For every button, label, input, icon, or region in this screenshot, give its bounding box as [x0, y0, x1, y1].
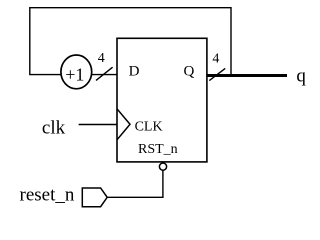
svg-text:CLK: CLK: [135, 119, 163, 134]
bus-width slash on D wire: [96, 67, 113, 80]
clock wedge on CLK pin: [117, 109, 130, 140]
wire Q output (4-bit bus, thick): [206, 74, 287, 77]
wire +1 output to D input: [92, 74, 117, 76]
svg-text:Q: Q: [184, 63, 195, 79]
incrementer +1: [61, 55, 92, 89]
wire feedback loop from q tap to +1 input: [30, 8, 231, 76]
svg-text:4: 4: [98, 51, 105, 66]
wire clk input: [79, 124, 117, 126]
svg-text:q: q: [296, 66, 306, 87]
svg-text:clk: clk: [42, 118, 66, 139]
svg-text:reset_n: reset_n: [20, 185, 75, 206]
register U1 body: [117, 38, 207, 162]
svg-text:4: 4: [212, 51, 219, 66]
svg-text:RST_n: RST_n: [138, 142, 178, 157]
svg-text:+1: +1: [65, 65, 84, 85]
input port symbol reset_n: [82, 188, 107, 207]
active-low bubble on RST_n pin: [159, 163, 166, 170]
svg-text:D: D: [129, 63, 140, 79]
wire reset_n to RST_n bubble: [107, 170, 163, 197]
bus-width slash on Q wire: [209, 68, 225, 80]
